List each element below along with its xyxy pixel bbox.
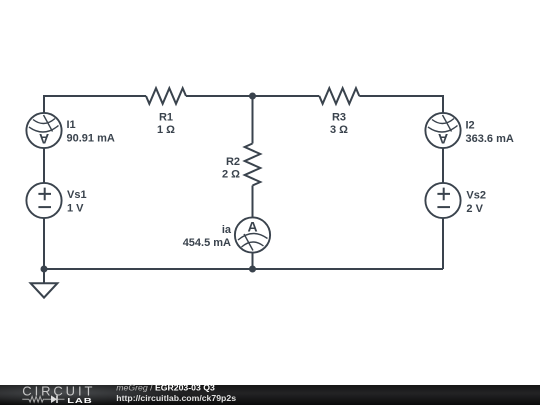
logo resistor zigzag: [29, 396, 45, 402]
wire Vs1 to bottom rail: [43, 218, 45, 269]
svg-text:R3: R3: [332, 111, 346, 123]
svg-text:I1: I1: [67, 119, 76, 131]
current source I1: [26, 113, 61, 148]
wire top node to R2: [252, 96, 254, 144]
svg-text:1 Ω: 1 Ω: [157, 124, 175, 136]
logo diode: [51, 395, 57, 403]
svg-text:2 Ω: 2 Ω: [222, 169, 240, 181]
node junction bottom middle: [249, 266, 256, 273]
wire R2 to ammeter: [252, 186, 254, 218]
wire R1 to R3: [186, 95, 319, 97]
wire I2 to Vs2: [442, 148, 444, 183]
resistor R1: [146, 88, 186, 104]
svg-text:2 V: 2 V: [466, 203, 483, 215]
svg-text:Vs2: Vs2: [466, 189, 486, 201]
wire top-left: I1 top to R1: [44, 96, 146, 113]
current source I2: [425, 113, 460, 148]
svg-text:90.91 mA: 90.91 mA: [67, 133, 115, 145]
svg-text:http://circuitlab.com/ck79p2s: http://circuitlab.com/ck79p2s: [116, 393, 236, 403]
svg-text:454.5 mA: 454.5 mA: [183, 237, 231, 249]
svg-text:1 V: 1 V: [67, 203, 84, 215]
svg-text:ia: ia: [222, 224, 232, 236]
voltage source Vs2: [425, 183, 460, 218]
svg-text:363.6 mA: 363.6 mA: [466, 133, 514, 145]
svg-text:R2: R2: [226, 156, 240, 168]
wire ammeter to bottom rail: [252, 253, 254, 269]
svg-text:meGreg / EGR203-03 Q3: meGreg / EGR203-03 Q3: [116, 383, 215, 393]
svg-text:3 Ω: 3 Ω: [330, 124, 348, 136]
resistor R3: [319, 88, 359, 104]
svg-text:Vs1: Vs1: [67, 189, 87, 201]
footer bar: [0, 385, 540, 405]
voltage source Vs1: [26, 183, 61, 218]
svg-text:I2: I2: [466, 120, 475, 132]
wire R3 to I2 top: [359, 96, 443, 113]
svg-text:R1: R1: [159, 111, 173, 123]
ground: [43, 269, 45, 283]
logo wire: [22, 398, 64, 400]
bottom rail wire: [44, 268, 443, 270]
svg-text:LAB: LAB: [67, 397, 92, 405]
node junction bottom left: [41, 266, 48, 273]
ammeter ia: [235, 217, 270, 252]
resistor R2: [245, 144, 261, 186]
wire I1 to Vs1: [43, 148, 45, 183]
node junction top middle: [249, 93, 256, 100]
wire Vs2 to bottom rail: [442, 218, 444, 269]
